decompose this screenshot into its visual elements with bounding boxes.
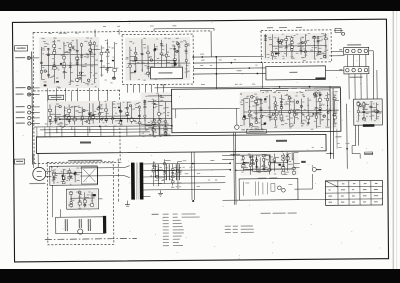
wire long y87 (155, 86, 341, 88)
wire bus y68 (193, 67, 265, 70)
capacitor C51 (65, 219, 67, 231)
component cluster: filter capacitors (150, 159, 182, 189)
rect: board DR-250 long outline (36, 134, 326, 153)
wire center drops (192, 152, 195, 202)
wire main left vertical bus (31, 51, 34, 164)
wire driver links (236, 152, 293, 170)
speaker terminal strip B (344, 67, 369, 74)
label DR-250 left (80, 141, 91, 143)
chassis ground dash-dot line (45, 238, 137, 241)
wire annotations (44, 24, 350, 188)
label box PB-1 COMP (246, 130, 266, 134)
component cluster: input selector switches (39, 37, 118, 89)
wire bus y74 (193, 72, 265, 75)
component top-right misc (334, 28, 345, 35)
wire jack stubs (30, 58, 40, 124)
AC plug P1 (33, 153, 46, 180)
capacitor C53 (88, 219, 90, 231)
wire mid bus 2 (40, 129, 172, 130)
wire junction vertical (215, 57, 217, 89)
label box L-5 VR (15, 46, 28, 52)
wire top tape loop (154, 28, 214, 31)
wire mid bus 3 (45, 131, 150, 134)
label on protector board (289, 72, 325, 80)
power control block (354, 99, 383, 125)
component cluster: regulator 1 (51, 168, 82, 185)
input label TAPE REC A (16, 106, 25, 107)
label DR-250 right (276, 140, 287, 142)
component cluster: driver bias (240, 152, 300, 176)
wire right rail pair (330, 86, 334, 159)
input label TAPE MON B (16, 123, 25, 124)
label SPEAKER A (347, 44, 361, 45)
connector bar (103, 216, 106, 234)
wire eq drops (128, 84, 164, 92)
voltage table (325, 180, 382, 205)
wire far right drop (346, 104, 349, 169)
dashed box: tone control module (261, 30, 331, 63)
fuse F1 (365, 152, 373, 155)
voltage regulator IC (76, 193, 92, 200)
capacitor C61 + (155, 164, 158, 177)
input label TAPE REC B (16, 117, 25, 118)
wire secondary taps (143, 164, 150, 197)
input jack TUNER (27, 86, 30, 89)
input jack AUX (27, 93, 30, 96)
label AC 120V (29, 183, 45, 184)
wire bus y57 (193, 56, 344, 57)
bias labels (258, 178, 277, 179)
input jack TAPE REC B (28, 116, 31, 119)
transistor output sensor (312, 165, 321, 172)
scanner streak (393, 11, 394, 269)
wire mid drops (37, 126, 166, 137)
regulator block 2 loop (66, 189, 98, 209)
diode bridge D1-D4 (81, 167, 98, 184)
heading B-1 class (261, 213, 297, 214)
labels above tone module (267, 27, 302, 28)
regulator block 3 loop (56, 217, 105, 234)
capacitor C62 + (166, 164, 169, 180)
component cluster: switch bank left of board (141, 92, 171, 137)
input label AUX (16, 94, 24, 95)
transformer T1 secondary winding (140, 162, 144, 199)
component cluster: power amplifier (240, 91, 340, 130)
label small dark (301, 161, 306, 163)
wire speaker feeds (338, 51, 377, 100)
wire driver rails vertical (233, 133, 237, 205)
component cluster: volume balance controls (48, 100, 149, 127)
label box PB CONT (49, 95, 64, 100)
component cluster: regulator 2 (67, 190, 97, 209)
scan speckles (163, 69, 166, 72)
rect: main amp board outline (172, 88, 341, 133)
speaker terminal strip A (344, 47, 369, 54)
capacitor C63 + (176, 164, 179, 180)
dashed shield line (117, 159, 119, 203)
wire regulator drops (52, 185, 102, 217)
input label TAPE MON A (16, 112, 25, 113)
wire to output meter (294, 174, 312, 189)
input label PHONO (15, 57, 25, 58)
rect: protector board (266, 66, 326, 80)
transistor Q31 (69, 195, 74, 200)
wire secondary rails (150, 163, 230, 190)
ground sym 1 (158, 190, 163, 196)
dashed box: input selector module (33, 31, 212, 164)
wire to transformer (52, 166, 130, 179)
input jack PHONO (27, 56, 30, 59)
input jack TAPE REC A (28, 105, 31, 108)
dashed box: equalizer amp module (122, 34, 193, 85)
wire driver bottom (222, 154, 331, 200)
wire top risers (95, 28, 211, 58)
component cluster: tone control (263, 33, 329, 61)
transformer core lines (136, 163, 138, 200)
transistor Q35 (78, 229, 83, 234)
IC U1 operation amp (150, 67, 182, 79)
label box AC (15, 159, 25, 164)
input jack TAPE MON A (28, 111, 31, 114)
input jack TAPE MON B (28, 122, 31, 125)
wire strip feeds left (262, 51, 343, 88)
wire mid bus 1 (34, 126, 172, 127)
parts list note (152, 213, 254, 246)
label SPEAKER B (349, 77, 362, 78)
capacitor C52 (79, 219, 81, 228)
wire main board inner line (172, 107, 240, 110)
bottom black bar (0, 269, 400, 283)
wire amp feed 2 (148, 101, 176, 118)
input label TUNER (16, 87, 26, 88)
regulator block 1 loop (50, 166, 98, 185)
dashed box: low voltage regulator (47, 162, 114, 245)
component cluster: power control (356, 100, 383, 123)
driver block loop (239, 178, 298, 200)
wire mid bus 0 (60, 117, 172, 120)
transformer T1 primary winding (131, 163, 135, 200)
wire plug leads (46, 167, 53, 176)
label power trans (363, 124, 375, 127)
node junction dots (58, 55, 348, 172)
driver sub-box (253, 155, 271, 171)
wire vertical risers selector (48, 88, 108, 134)
wire power block drop (352, 125, 373, 159)
top black bar (0, 0, 400, 11)
dashed divider line (34, 89, 120, 92)
wire amp feed 1 (148, 95, 172, 97)
component cluster: equalizer amp (125, 37, 190, 81)
ground sym 2 (125, 201, 130, 207)
wire right rail bottom (230, 151, 334, 158)
label boxes on amp top edge (261, 90, 330, 94)
potentiometer arrows (52, 109, 121, 122)
wire bus y63 (193, 61, 262, 64)
label LOW VOLTAGE REGULATOR (68, 160, 102, 161)
component transistor pre-driver (235, 108, 240, 129)
wire speaker strip links (339, 49, 366, 70)
bias parts (243, 181, 292, 195)
power switch S1 (51, 166, 57, 170)
label fuse (335, 129, 341, 149)
